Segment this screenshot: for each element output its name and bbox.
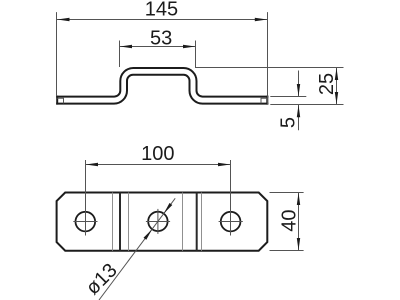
bend line thin left inner [128,193,130,251]
dim 40 extension top [270,192,304,194]
leader arrow upper (points to circle from outside upper-right) [164,203,173,214]
dim 100 line [85,164,230,166]
hole left [76,212,96,232]
hole middle [148,212,167,231]
svg-text:53: 53 [150,28,172,50]
dim 145 extension right [267,12,269,104]
dim 53 line [120,46,196,48]
dim 25 extension bottom [270,104,343,106]
dim 40 extension bottom [270,250,304,252]
hole left horizontal centerline [73,221,97,223]
dim 100 arrow left [86,163,98,166]
dim 5 lower line with up arrow [298,105,300,131]
dim 53 extension right [195,41,197,68]
hole right horizontal centerline [219,221,243,223]
dim 5 extension top [270,96,306,98]
dim 100 extension left (through left hole) [85,160,87,236]
profile outer contour (flange top / wall left / hat top outer) [57,68,267,97]
dim 53 extension left [119,41,121,68]
dim 100 arrow right [218,163,230,166]
dim 40 arrow down [297,238,300,250]
bend line thin left outer [112,193,114,251]
plate outline [57,193,268,251]
left end cap [56,97,58,104]
dim 40 arrow up [297,193,300,205]
svg-text:40: 40 [279,209,301,231]
svg-text:100: 100 [141,143,174,165]
bend line thin right outer [201,193,203,251]
dim 25 arrow up [335,68,338,80]
hole right [221,212,241,232]
dim 145 extension left [56,12,58,96]
dim 53 arrow left [120,45,132,48]
dim 40 line [298,193,300,251]
dim 145 arrow right [255,18,267,21]
dim 100 extension right (through right hole) [230,160,232,236]
right end small square [261,98,267,103]
bend line thick right [196,193,198,251]
bend line thin right inner [182,193,184,251]
svg-text:25: 25 [316,73,338,95]
leader arrow lower (points to circle from outside lower-left) [144,229,153,240]
dim 25 arrow down [335,92,338,104]
svg-text:5: 5 [278,117,300,128]
bend line thick left [119,193,121,251]
dim 145 arrow left [57,18,69,21]
hole middle vertical centerline [157,209,159,234]
hole middle horizontal centerline [146,221,170,223]
dim 145 line [57,19,267,21]
dim 53 arrow right [183,45,195,48]
right end cap [266,97,268,104]
svg-text:145: 145 [145,0,178,21]
dim 5 upper line with down arrow [298,71,300,97]
profile inner contour (flange bottom / wall inner / hat top inner) [57,75,267,104]
leader line for hole diameter [99,198,175,300]
left end small square [57,98,63,103]
dim 25 line [336,68,338,105]
dim 25 extension top [195,67,344,69]
